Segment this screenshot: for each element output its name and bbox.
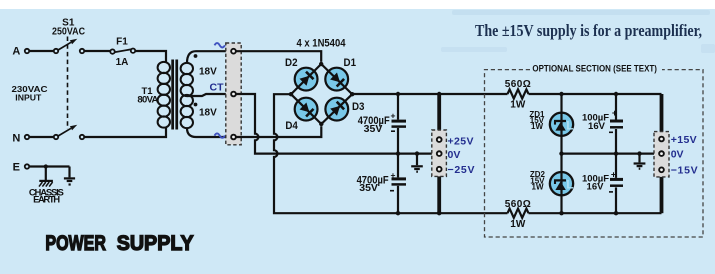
- svg-text:80VA: 80VA: [137, 94, 158, 105]
- node right of bridge: [350, 92, 354, 96]
- transformer T1 primary winding: [158, 62, 170, 128]
- wire CT to 0V rail: [236, 94, 436, 154]
- transformer connector circle bottom: [231, 135, 236, 140]
- svg-text:−15V: −15V: [671, 165, 698, 177]
- capacitor C2 bottom wire: [397, 186, 399, 213]
- svg-text:+: +: [391, 111, 396, 121]
- svg-text:EARTH: EARTH: [33, 195, 60, 206]
- svg-text:L: L: [566, 178, 573, 192]
- junction E: [44, 164, 48, 168]
- capacitor C1 top wire: [397, 94, 399, 120]
- switch gang dashed line: [67, 37, 69, 130]
- wire switch N to transformer primary bottom: [84, 127, 166, 137]
- switch S1 contact A circle: [80, 49, 84, 53]
- zener ZD2 wires: [560, 154, 562, 173]
- wire secondary top lead: [187, 51, 231, 63]
- diode D2 circle: [295, 68, 318, 91]
- terminal E circle: [25, 164, 29, 168]
- transformer T1 secondary winding upper: [181, 63, 193, 96]
- svg-text:F1: F1: [116, 37, 128, 48]
- capacitor C4 minus: [609, 191, 613, 193]
- resistor R2 560ohm bottom: [508, 209, 529, 218]
- svg-text:18V: 18V: [199, 67, 217, 78]
- svg-text:1A: 1A: [116, 57, 129, 68]
- tilde upper: [215, 43, 225, 47]
- ghost text artifact left: [441, 47, 507, 52]
- svg-text:INPUT: INPUT: [15, 92, 41, 102]
- capacitor C4 100uF wires: [615, 154, 617, 178]
- terminal N circle: [25, 135, 29, 139]
- zener ZD2 symbol: [554, 180, 566, 190]
- fuse F1 right circle: [131, 49, 135, 53]
- svg-text:35V: 35V: [359, 182, 378, 194]
- junction -25V drop: [437, 211, 441, 215]
- capacitor C2 plates: [392, 177, 407, 180]
- svg-text:250VAC: 250VAC: [52, 26, 85, 37]
- svg-text:16V: 16V: [587, 182, 605, 193]
- terminal A circle: [25, 49, 29, 53]
- connector circle 0V right: [659, 151, 664, 156]
- svg-text:OPTIONAL SECTION (SEE TEXT): OPTIONAL SECTION (SEE TEXT): [532, 63, 657, 73]
- connector circle +25V: [437, 137, 442, 142]
- transformer connector circle top: [231, 49, 236, 54]
- svg-text:18V: 18V: [199, 108, 217, 119]
- svg-text:D1: D1: [344, 57, 357, 69]
- capacitor C1 bottom wire: [397, 128, 399, 154]
- svg-text:560Ω: 560Ω: [505, 79, 531, 90]
- capacitor C3 100uF wires: [615, 94, 617, 120]
- node left of bridge: [289, 92, 293, 96]
- output connector box 15V: [654, 132, 669, 177]
- svg-text:SUPPLY: SUPPLY: [117, 232, 194, 255]
- diode D4 circle: [295, 98, 318, 121]
- transformer T1 secondary winding lower: [181, 95, 193, 128]
- wire secondary bottom lead: [187, 128, 231, 137]
- switch S1 pole A circle: [54, 49, 58, 53]
- svg-text:+15V: +15V: [671, 134, 697, 146]
- wire switch A to fuse: [84, 50, 110, 52]
- junction ZD mid: [559, 151, 563, 155]
- capacitor C2 top wire: [397, 154, 399, 178]
- output connector box 25V: [432, 130, 447, 176]
- resistor R1 560ohm top: [508, 89, 529, 98]
- svg-text:L: L: [566, 118, 573, 132]
- svg-text:4 x 1N5404: 4 x 1N5404: [297, 38, 347, 50]
- wire bottom AC to bridge: [236, 126, 321, 137]
- capacitor C3 minus: [609, 131, 613, 133]
- junction C1 top: [396, 92, 400, 96]
- svg-text:16V: 16V: [588, 121, 606, 132]
- junction C3 top: [614, 92, 618, 96]
- switch S1 blade N: [58, 128, 71, 136]
- zener ZD1 symbol: [554, 121, 566, 131]
- transformer connector box: [226, 43, 241, 145]
- wire -25V rise (thick): [437, 172, 441, 214]
- diode D1 circle: [325, 68, 348, 91]
- junction ZD1 top: [559, 92, 563, 96]
- svg-text:0V: 0V: [448, 149, 461, 161]
- svg-text:D3: D3: [352, 101, 365, 113]
- svg-text:+: +: [391, 170, 396, 180]
- node top of bridge: [319, 62, 323, 66]
- junction C2 bottom: [396, 211, 400, 215]
- capacitor C4 plates: [610, 178, 623, 181]
- tilde lower: [215, 133, 225, 137]
- capacitor C1 minus: [391, 130, 395, 132]
- svg-text:−25V: −25V: [448, 164, 475, 176]
- transformer T1 core: [171, 60, 174, 130]
- fuse F1 left circle: [110, 49, 114, 53]
- capacitor C2 minus: [390, 190, 394, 192]
- node bottom of bridge: [319, 122, 323, 126]
- zener ZD1 wire through: [560, 113, 562, 136]
- zener ZD1 circle: [550, 113, 573, 136]
- svg-text:1W: 1W: [510, 99, 526, 110]
- connector circle +15V: [659, 137, 664, 142]
- wire bottom rail in box right of resistor: [529, 212, 662, 214]
- chassis earth symbol: [39, 167, 53, 187]
- zener ZD2 circle: [550, 172, 573, 195]
- junction ZD2 bottom: [559, 211, 563, 215]
- ghost text artifact right: [701, 44, 715, 53]
- diode D2 symbol: [300, 72, 314, 86]
- wire top AC to bridge: [236, 51, 321, 62]
- junction C1 bottom: [396, 151, 400, 155]
- svg-text:0V: 0V: [671, 149, 684, 161]
- wire +25V rail: [352, 93, 507, 95]
- connector circle -25V: [437, 167, 442, 172]
- ghost text artifact top: [452, 10, 710, 15]
- svg-text:A: A: [12, 45, 20, 57]
- switch S1 pole N circle: [54, 135, 58, 139]
- wire +25V rail right of resistor: [529, 93, 662, 95]
- optional section dashed box: [485, 70, 704, 237]
- junction 0V ground: [415, 151, 419, 155]
- svg-text:D2: D2: [285, 57, 298, 69]
- capacitor C3 plates: [610, 120, 623, 123]
- junction C4 bottom: [614, 211, 618, 215]
- junction C3 bottom: [614, 151, 618, 155]
- bridge diamond wires: [291, 64, 352, 124]
- svg-text:CT: CT: [210, 81, 225, 93]
- phase dot upper: [194, 54, 198, 58]
- diode D3 symbol: [330, 102, 344, 116]
- wire fuse to transformer primary top: [135, 51, 166, 62]
- switch S1 blade A: [58, 42, 71, 50]
- wire +15V drop: [660, 94, 664, 137]
- white top band: [0, 0, 715, 9]
- ground symbol near E: [64, 167, 75, 186]
- ground symbol main: [411, 154, 423, 172]
- capacitor C1 plates: [392, 120, 407, 123]
- ground symbol optional: [634, 154, 646, 169]
- svg-text:POWER: POWER: [45, 232, 106, 255]
- svg-text:The ±15V supply is for a pream: The ±15V supply is for a preamplifier,: [475, 21, 702, 40]
- wire -15V rise (thick): [660, 172, 664, 213]
- svg-text:1W: 1W: [531, 122, 543, 131]
- zener ZD1 wires: [560, 94, 562, 113]
- wire CT lead: [187, 94, 231, 96]
- svg-text:+: +: [612, 108, 617, 118]
- zener ZD2 wire through: [560, 172, 562, 195]
- svg-text:35V: 35V: [364, 123, 383, 135]
- fuse F1 blade: [114, 49, 131, 52]
- diode D4 symbol: [300, 103, 314, 117]
- diode D1 symbol: [330, 73, 344, 87]
- wire E: [30, 165, 70, 167]
- svg-text:E: E: [13, 162, 20, 174]
- junction +25V drop: [437, 92, 441, 96]
- diode D3 circle: [325, 98, 348, 121]
- svg-text:1W: 1W: [532, 183, 544, 192]
- junction optional ground: [637, 151, 641, 155]
- wire +25V drop (thick): [437, 94, 441, 137]
- wire bridge negative to bottom rail: [274, 94, 508, 213]
- connector circle -15V: [659, 167, 664, 172]
- svg-text:+25V: +25V: [448, 135, 474, 147]
- wire A to switch: [30, 50, 54, 52]
- phase dot lower: [194, 103, 198, 107]
- wire N to switch: [30, 136, 54, 138]
- svg-text:560Ω: 560Ω: [505, 199, 531, 210]
- transformer connector circle mid: [231, 92, 236, 97]
- svg-text:+: +: [611, 170, 616, 180]
- svg-text:N: N: [12, 132, 20, 144]
- optional mid rail: [562, 153, 660, 155]
- connector circle 0V: [437, 151, 442, 156]
- svg-text:1W: 1W: [510, 219, 526, 230]
- svg-text:D4: D4: [285, 120, 298, 132]
- switch S1 contact N circle: [80, 135, 84, 139]
